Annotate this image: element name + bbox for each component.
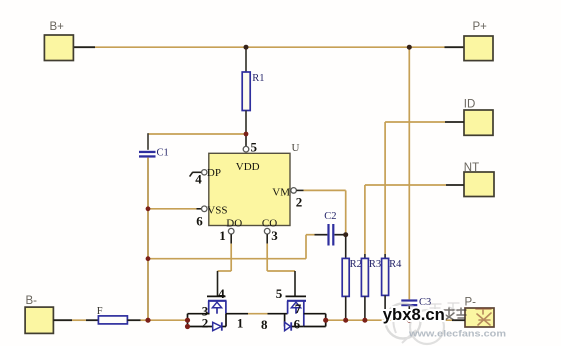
wire F node to Q1 source rail (148, 319, 188, 321)
svg-text:1: 1 (237, 315, 244, 330)
junction R2 bottom node (343, 318, 348, 323)
svg-text:F: F (97, 306, 103, 317)
fuse F (97, 306, 148, 324)
svg-text:DO: DO (226, 217, 242, 229)
wire node B down to C3 (long right vertical) (408, 47, 410, 299)
terminal B- (25, 295, 53, 333)
svg-text:R1: R1 (252, 73, 264, 84)
transistor Q1 (label 4) (188, 286, 227, 330)
pin 6 VSS (lead + bubble) (196, 206, 207, 229)
svg-text:1: 1 (219, 228, 226, 243)
resistor R4 (382, 122, 403, 320)
svg-text:P+: P+ (473, 21, 488, 33)
resistor R3 (361, 185, 381, 320)
junction C3 bottom node (407, 318, 412, 323)
diode D2 (Q2 body diode) (285, 314, 304, 332)
svg-text:7: 7 (295, 301, 302, 316)
svg-text:2: 2 (202, 316, 209, 331)
capacitor C2 (324, 211, 346, 246)
pin 1 DO (lead + bubble) (219, 228, 234, 243)
svg-text:VM: VM (272, 186, 290, 198)
wire C1 top to pin5 node (148, 133, 246, 150)
svg-text:NT: NT (464, 162, 479, 174)
junction node B (409,47) (407, 45, 412, 50)
junction C2-R2-VM node (343, 232, 348, 237)
svg-text:5: 5 (251, 139, 258, 154)
terminal P- (465, 297, 495, 328)
resistor R1 (242, 47, 264, 134)
svg-text:C2: C2 (324, 211, 336, 222)
svg-text:8: 8 (261, 317, 268, 332)
svg-text:6: 6 (196, 214, 203, 229)
svg-text:DP: DP (207, 167, 221, 179)
svg-text:R2: R2 (350, 259, 362, 270)
terminal ID (464, 99, 493, 136)
svg-text:ybx8.cn: ybx8.cn (383, 305, 445, 324)
wire VSS to left vertical (148, 208, 197, 210)
wire node B to P+ (top rail right) (409, 46, 464, 48)
node Q1 source to B- rail (187, 314, 189, 327)
wire R3 top to NT (365, 184, 464, 186)
transistor Q2 (label 5) (276, 286, 326, 327)
wire VM to C2 node (304, 190, 346, 234)
wire left vertical to C2 left (VSS net) (148, 235, 327, 259)
svg-text:VDD: VDD (236, 161, 260, 173)
svg-text:6: 6 (294, 317, 301, 332)
pin 4 DP (lead + bubble) (190, 170, 207, 187)
terminal NT (464, 162, 494, 197)
svg-text:B+: B+ (50, 21, 65, 33)
svg-text:B-: B- (26, 295, 38, 307)
junction Q1 source node lower (185, 324, 190, 329)
wire C1 bottom down left vertical (147, 158, 149, 321)
svg-text:R3: R3 (369, 259, 381, 270)
wire B+ to node A (top rail left) (74, 46, 247, 48)
terminal B+ (44, 21, 73, 61)
junction R3 bottom node (362, 318, 367, 323)
pin 3 CO (lead + bubble) (264, 228, 278, 243)
svg-text:3: 3 (271, 228, 278, 243)
watermark stamp rings (386, 304, 445, 345)
svg-text:5: 5 (276, 286, 283, 301)
svg-text:www.elecfans.com: www.elecfans.com (408, 329, 506, 340)
capacitor C1 (139, 148, 169, 159)
svg-text:4: 4 (195, 172, 202, 187)
wire node A to node B (top rail middle) (246, 46, 409, 48)
svg-text:VSS: VSS (207, 204, 227, 216)
watermark CJK-like strokes (drawn) (429, 303, 491, 325)
svg-text:U: U (292, 142, 300, 154)
junction VSS-C2 node (146, 256, 151, 261)
svg-text:2: 2 (296, 195, 303, 210)
junction node A (246,47) (244, 45, 249, 50)
junction Q1 source node upper (185, 318, 190, 323)
svg-text:ID: ID (464, 99, 476, 111)
wire common drain rail Q1-Q2 (226, 314, 288, 332)
junction VSS node (146, 206, 151, 211)
pin 2 VM (lead + bubble) (291, 188, 304, 210)
IC U body (207, 142, 300, 229)
junction pin5 node (244, 132, 249, 137)
svg-text:P-: P- (465, 297, 477, 309)
diode D1 (Q1 body diode) (213, 314, 226, 331)
junction Q2 source node (323, 318, 328, 323)
svg-text:4: 4 (218, 286, 225, 301)
wire CO to Q2 gate (267, 244, 295, 296)
svg-text:R4: R4 (389, 259, 402, 270)
junction B- rail node (145, 318, 150, 323)
wire Q2 to P- rail (326, 319, 465, 321)
wire DO to Q1 gate (218, 244, 232, 296)
resistor R2 (342, 235, 362, 321)
terminal P+ (464, 21, 493, 61)
pin 5 VDD (lead + bubble) (243, 134, 257, 154)
wire B- to fuse F (53, 319, 98, 321)
wire R4 top to ID (385, 121, 464, 123)
capacitor C3 (401, 297, 431, 320)
svg-text:C1: C1 (157, 148, 169, 159)
